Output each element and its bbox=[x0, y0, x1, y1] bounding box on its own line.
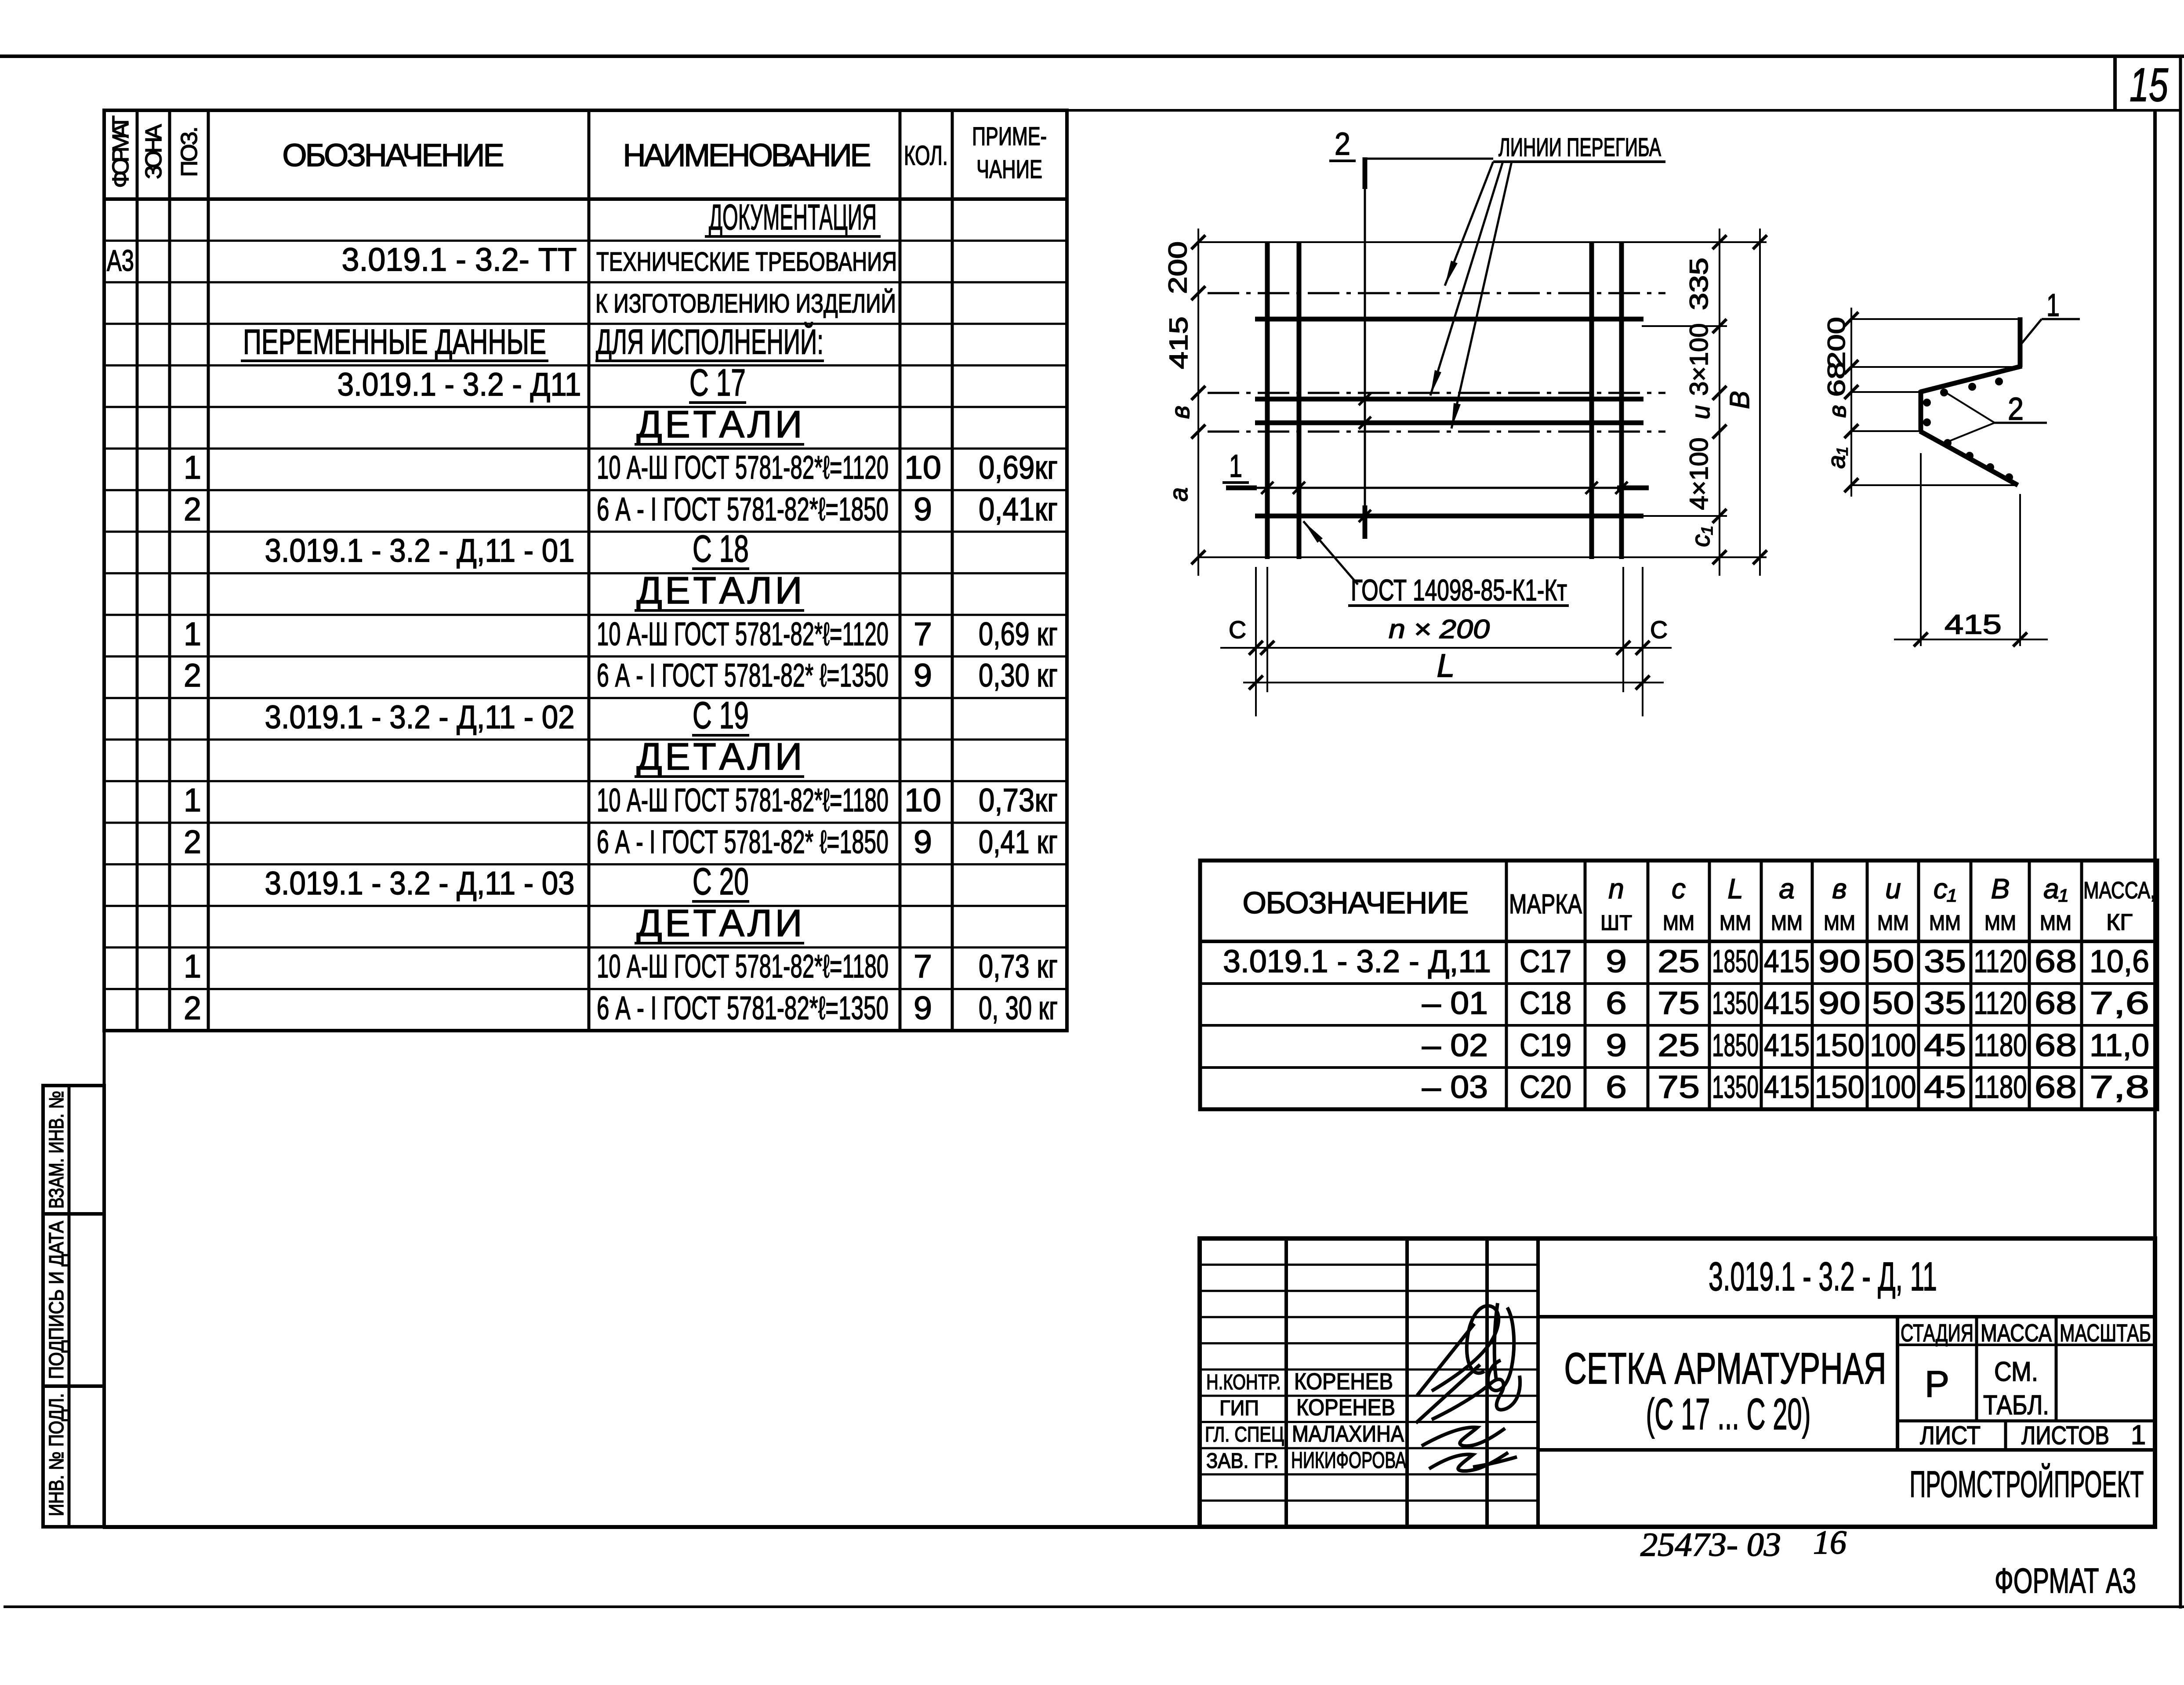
svg-text:0, 30 кг: 0, 30 кг bbox=[979, 990, 1058, 1026]
title name box divider bbox=[1538, 1448, 2155, 1452]
svg-text:в: в bbox=[1166, 406, 1195, 419]
detail 415 dimension bbox=[1920, 453, 1922, 646]
svg-text:1350: 1350 bbox=[1712, 986, 1759, 1021]
svg-text:с₁: с₁ bbox=[1934, 873, 1956, 904]
svg-text:100: 100 bbox=[1870, 1028, 1916, 1063]
svg-text:10,6: 10,6 bbox=[2090, 944, 2149, 979]
title block left grid columns bbox=[1284, 1238, 1288, 1527]
svg-text:415: 415 bbox=[1764, 986, 1810, 1021]
svg-text:МАССА,: МАССА, bbox=[2083, 877, 2155, 904]
svg-text:90: 90 bbox=[1818, 944, 1861, 979]
svg-text:9: 9 bbox=[914, 824, 932, 860]
svg-text:с₁: с₁ bbox=[1687, 526, 1715, 547]
section line 1 (horizontal) bbox=[1252, 487, 1617, 489]
svg-text:3.019.1 - 3.2- ТТ: 3.019.1 - 3.2- ТТ bbox=[342, 241, 577, 278]
svg-text:ЛИСТОВ: ЛИСТОВ bbox=[2021, 1421, 2109, 1450]
svg-text:(С 17 ... С 20): (С 17 ... С 20) bbox=[1646, 1390, 1811, 1439]
svg-text:В: В bbox=[1725, 391, 1755, 409]
svg-text:415: 415 bbox=[1165, 316, 1193, 369]
transverse bar x=2884 bbox=[1265, 242, 1270, 559]
title doc number divider bbox=[1538, 1315, 2155, 1318]
sheet number box divider bbox=[2113, 56, 2117, 111]
svg-text:68: 68 bbox=[2035, 944, 2077, 979]
svg-text:Д Е Т А Л И: Д Е Т А Л И bbox=[637, 570, 802, 612]
svg-text:С 20: С 20 bbox=[693, 861, 749, 903]
parameters table row lines bbox=[1200, 982, 2157, 985]
svg-text:3.019.1 - 3.2 - Д,11: 3.019.1 - 3.2 - Д,11 bbox=[1223, 944, 1491, 979]
svg-text:1: 1 bbox=[1229, 449, 1242, 484]
svg-text:КОЛ.: КОЛ. bbox=[904, 141, 948, 171]
svg-text:0,73кг: 0,73кг bbox=[979, 782, 1058, 818]
svg-text:ГОСТ 14098-85-К1-Кт: ГОСТ 14098-85-К1-Кт bbox=[1351, 574, 1567, 607]
svg-text:К ИЗГОТОВЛЕНИЮ ИЗДЕЛИЙ: К ИЗГОТОВЛЕНИЮ ИЗДЕЛИЙ bbox=[595, 289, 896, 318]
label ГОСТ 14098-85-К1-Кт bbox=[1303, 521, 1358, 585]
svg-text:и: и bbox=[1885, 873, 1901, 904]
svg-text:В: В bbox=[1991, 873, 2010, 904]
transverse bar x=2956 bbox=[1297, 242, 1302, 559]
svg-text:ГИП: ГИП bbox=[1219, 1397, 1259, 1420]
extension line mesh bottom bbox=[1198, 556, 1767, 558]
svg-text:0,41кг: 0,41кг bbox=[979, 491, 1058, 527]
spec table row lines bbox=[104, 240, 1067, 242]
svg-text:7,8: 7,8 bbox=[2090, 1070, 2149, 1105]
title block outer border bbox=[1200, 1238, 2155, 1527]
svg-text:1: 1 bbox=[184, 616, 201, 652]
svg-text:С: С bbox=[1650, 616, 1668, 643]
svg-text:150: 150 bbox=[1815, 1028, 1865, 1063]
svg-text:335: 335 bbox=[1685, 258, 1713, 310]
svg-text:ЛИСТ: ЛИСТ bbox=[1920, 1421, 1981, 1450]
fold line y=894 bbox=[1208, 392, 1665, 394]
svg-text:2: 2 bbox=[184, 990, 201, 1026]
svg-text:90: 90 bbox=[1818, 986, 1861, 1021]
svg-text:ДОКУМЕНТАЦИЯ: ДОКУМЕНТАЦИЯ bbox=[709, 197, 877, 237]
detail lower diagonal bbox=[1920, 431, 2018, 485]
svg-text:Р: Р bbox=[1925, 1363, 1949, 1405]
svg-text:415: 415 bbox=[1945, 610, 2002, 640]
svg-text:1: 1 bbox=[2131, 1420, 2146, 1450]
svg-text:ЗАВ. ГР.: ЗАВ. ГР. bbox=[1206, 1449, 1279, 1473]
svg-text:3×100: 3×100 bbox=[1685, 323, 1713, 396]
svg-text:L: L bbox=[1437, 647, 1455, 684]
svg-text:МАЛАХИНА: МАЛАХИНА bbox=[1292, 1421, 1404, 1447]
svg-text:415: 415 bbox=[1764, 1028, 1810, 1063]
svg-text:– 03: – 03 bbox=[1422, 1070, 1488, 1105]
top paper edge line bbox=[0, 54, 2184, 58]
svg-text:25473- 03: 25473- 03 bbox=[1640, 1526, 1781, 1563]
svg-text:1: 1 bbox=[2046, 288, 2060, 323]
svg-text:СЕТКА АРМАТУРНАЯ: СЕТКА АРМАТУРНАЯ bbox=[1564, 1344, 1887, 1393]
svg-text:– 01: – 01 bbox=[1422, 986, 1488, 1021]
svg-text:1350: 1350 bbox=[1712, 1070, 1759, 1105]
svg-text:– 02: – 02 bbox=[1422, 1028, 1488, 1063]
svg-text:ИНВ. № ПОДЛ.: ИНВ. № ПОДЛ. bbox=[45, 1393, 68, 1516]
detail extension lines bbox=[1851, 318, 2018, 320]
svg-text:НАИМЕНОВАНИЕ: НАИМЕНОВАНИЕ bbox=[623, 138, 871, 173]
svg-text:50: 50 bbox=[1872, 944, 1914, 979]
svg-text:25: 25 bbox=[1658, 944, 1700, 979]
svg-text:С17: С17 bbox=[1520, 944, 1571, 979]
detail bar dots bbox=[1995, 378, 2003, 385]
svg-text:6 А - I ГОСТ 5781-82* ℓ=1850: 6 А - I ГОСТ 5781-82* ℓ=1850 bbox=[597, 824, 889, 860]
svg-text:0,73 кг: 0,73 кг bbox=[979, 948, 1058, 984]
detail top bar bbox=[2018, 317, 2023, 367]
bottom extension lines bbox=[1255, 567, 1257, 716]
left frame line bbox=[103, 110, 106, 1529]
svg-text:ММ: ММ bbox=[1771, 911, 1803, 935]
svg-text:3.019.1 - 3.2 - Д,11 - 02: 3.019.1 - 3.2 - Д,11 - 02 bbox=[265, 699, 575, 735]
svg-text:ММ: ММ bbox=[1824, 911, 1855, 935]
svg-text:ПРИМЕ-: ПРИМЕ- bbox=[972, 122, 1047, 151]
section line 2 top jog bbox=[1365, 158, 1493, 160]
left stamp boxes bbox=[43, 1086, 104, 1527]
detail left bar bbox=[1919, 390, 1923, 432]
svg-text:и: и bbox=[1687, 405, 1715, 419]
svg-text:3.019.1 - 3.2 - Д, 11: 3.019.1 - 3.2 - Д, 11 bbox=[1709, 1254, 1937, 1299]
svg-text:3.019.1 - 3.2 - Д,11 - 03: 3.019.1 - 3.2 - Д,11 - 03 bbox=[265, 865, 575, 901]
svg-text:n: n bbox=[1608, 873, 1624, 904]
svg-text:ТАБЛ.: ТАБЛ. bbox=[1983, 1390, 2049, 1420]
svg-text:а₁: а₁ bbox=[1822, 447, 1850, 469]
signatures scribble bbox=[1417, 1306, 1498, 1395]
fold line y=667 bbox=[1208, 292, 1665, 294]
svg-text:3.019.1 - 3.2 - Д11: 3.019.1 - 3.2 - Д11 bbox=[337, 366, 581, 403]
svg-text:ТЕХНИЧЕСКИЕ ТРЕБОВАНИЯ: ТЕХНИЧЕСКИЕ ТРЕБОВАНИЯ bbox=[596, 247, 897, 276]
svg-text:1: 1 bbox=[184, 782, 201, 818]
svg-text:КОРЕНЕВ: КОРЕНЕВ bbox=[1296, 1395, 1395, 1420]
svg-text:4×100: 4×100 bbox=[1685, 438, 1713, 510]
svg-text:МАСШТАБ: МАСШТАБ bbox=[2060, 1319, 2151, 1347]
svg-text:6: 6 bbox=[1606, 986, 1627, 1021]
svg-text:МАРКА: МАРКА bbox=[1509, 889, 1582, 919]
svg-text:ФОРМАТ: ФОРМАТ bbox=[108, 116, 134, 188]
svg-text:2: 2 bbox=[184, 657, 201, 694]
svg-text:ММ: ММ bbox=[1877, 911, 1909, 935]
svg-text:68: 68 bbox=[1822, 362, 1850, 397]
svg-text:10: 10 bbox=[904, 782, 941, 818]
dimension line n x 200 bbox=[1220, 647, 1672, 649]
svg-text:2: 2 bbox=[1335, 127, 1350, 162]
svg-text:6 А - I ГОСТ 5781-82* ℓ=1350: 6 А - I ГОСТ 5781-82* ℓ=1350 bbox=[597, 657, 889, 694]
svg-text:9: 9 bbox=[914, 491, 932, 527]
extension line y=1174 right bbox=[1643, 515, 1727, 517]
svg-text:75: 75 bbox=[1658, 986, 1700, 1021]
svg-text:ШТ: ШТ bbox=[1600, 911, 1632, 935]
svg-text:МАССА: МАССА bbox=[1981, 1319, 2052, 1347]
svg-text:ОБОЗНАЧЕНИЕ: ОБОЗНАЧЕНИЕ bbox=[1243, 886, 1469, 920]
svg-text:Д Е Т А Л И: Д Е Т А Л И bbox=[637, 902, 802, 944]
svg-text:Д Е Т А Л И: Д Е Т А Л И bbox=[637, 403, 802, 446]
left dimension chain bbox=[1197, 229, 1199, 576]
longitudinal bar y=908 bbox=[1255, 397, 1643, 402]
svg-text:45: 45 bbox=[1924, 1028, 1966, 1063]
mini table column dividers bbox=[1975, 1317, 1978, 1421]
svg-text:ВЗАМ. ИНВ. №: ВЗАМ. ИНВ. № bbox=[45, 1091, 68, 1209]
svg-text:25: 25 bbox=[1658, 1028, 1700, 1063]
svg-text:6 А - I ГОСТ 5781-82*ℓ=1350: 6 А - I ГОСТ 5781-82*ℓ=1350 bbox=[597, 990, 889, 1026]
svg-text:0,41 кг: 0,41 кг bbox=[979, 824, 1058, 860]
svg-text:7: 7 bbox=[914, 948, 932, 984]
svg-text:35: 35 bbox=[1924, 944, 1966, 979]
svg-text:ДЛЯ ИСПОЛНЕНИЙ:: ДЛЯ ИСПОЛНЕНИЙ: bbox=[596, 322, 824, 361]
svg-text:А3: А3 bbox=[107, 244, 134, 277]
svg-text:15: 15 bbox=[2130, 58, 2169, 111]
svg-text:С18: С18 bbox=[1520, 986, 1571, 1021]
svg-text:10 А-Ш ГОСТ 5781-82*ℓ=1120: 10 А-Ш ГОСТ 5781-82*ℓ=1120 bbox=[597, 616, 889, 652]
svg-text:c: c bbox=[1672, 873, 1686, 904]
parameters table column lines bbox=[1505, 861, 1508, 1109]
svg-text:ЧАНИЕ: ЧАНИЕ bbox=[976, 155, 1042, 184]
svg-text:10 А-Ш ГОСТ 5781-82*ℓ=1120: 10 А-Ш ГОСТ 5781-82*ℓ=1120 bbox=[597, 449, 889, 486]
svg-text:ПРОМСТРОЙПРОЕКТ: ПРОМСТРОЙПРОЕКТ bbox=[1910, 1463, 2144, 1505]
longitudinal bar y=726 bbox=[1255, 317, 1643, 322]
svg-text:3.019.1 - 3.2 - Д,11 - 01: 3.019.1 - 3.2 - Д,11 - 01 bbox=[265, 532, 575, 569]
svg-text:а₁: а₁ bbox=[2043, 873, 2068, 904]
svg-text:10: 10 bbox=[904, 449, 941, 486]
transverse bar x=3622 bbox=[1589, 242, 1594, 559]
svg-text:СМ.: СМ. bbox=[1994, 1357, 2038, 1387]
svg-text:1850: 1850 bbox=[1712, 944, 1759, 979]
fold line y=982 bbox=[1208, 431, 1665, 433]
svg-text:Д Е Т А Л И: Д Е Т А Л И bbox=[637, 736, 802, 778]
svg-text:1: 1 bbox=[184, 948, 201, 984]
spec table column lines bbox=[136, 110, 139, 1031]
svg-text:150: 150 bbox=[1815, 1070, 1865, 1105]
svg-text:68: 68 bbox=[2035, 1028, 2077, 1063]
detail upper diagonal bbox=[1920, 366, 2022, 392]
section line 2 (vertical) bbox=[1364, 189, 1366, 505]
svg-text:50: 50 bbox=[1872, 986, 1914, 1021]
svg-text:1120: 1120 bbox=[1974, 986, 2027, 1021]
extension line mesh top bbox=[1198, 241, 1767, 243]
transverse bar x=3690 bbox=[1619, 242, 1624, 559]
svg-text:0,69кг: 0,69кг bbox=[979, 449, 1058, 486]
bottom paper edge line bbox=[4, 1605, 2184, 1608]
dimension line L bbox=[1243, 682, 1664, 683]
title mini table left edge bbox=[1896, 1317, 1899, 1450]
parameters table outer border bbox=[1200, 861, 2157, 1109]
svg-text:ММ: ММ bbox=[1720, 911, 1751, 935]
svg-text:С 19: С 19 bbox=[693, 694, 749, 737]
лист row bbox=[1897, 1420, 2155, 1423]
right dimension chain inner bbox=[1719, 229, 1720, 576]
longitudinal bar y=1174 bbox=[1255, 514, 1643, 519]
svg-text:10 А-Ш ГОСТ 5781-82*ℓ=1180: 10 А-Ш ГОСТ 5781-82*ℓ=1180 bbox=[597, 948, 889, 984]
spec table outer border bbox=[104, 110, 1067, 1031]
spec table header bottom line bbox=[104, 197, 1067, 201]
svg-text:С20: С20 bbox=[1520, 1070, 1571, 1105]
svg-text:ФОРМАТ А3: ФОРМАТ А3 bbox=[1995, 1561, 2136, 1600]
svg-text:6: 6 bbox=[1606, 1070, 1627, 1105]
svg-text:9: 9 bbox=[1606, 1028, 1627, 1063]
svg-text:0,69 кг: 0,69 кг bbox=[979, 616, 1058, 652]
svg-text:7,6: 7,6 bbox=[2090, 986, 2149, 1021]
svg-text:9: 9 bbox=[1606, 944, 1627, 979]
svg-text:1120: 1120 bbox=[1974, 944, 2027, 979]
svg-text:ММ: ММ bbox=[1929, 911, 1961, 935]
fold line leaders bbox=[1445, 162, 1493, 286]
svg-text:1180: 1180 bbox=[1974, 1028, 2027, 1063]
svg-text:0,30 кг: 0,30 кг bbox=[979, 657, 1058, 694]
svg-text:n × 200: n × 200 bbox=[1389, 614, 1490, 644]
parameters table header line bbox=[1200, 940, 2157, 943]
svg-text:ПЕРЕМЕННЫЕ ДАННЫЕ: ПЕРЕМЕННЫЕ ДАННЫЕ bbox=[243, 322, 546, 361]
svg-text:415: 415 bbox=[1764, 1070, 1810, 1105]
right paper edge line bbox=[2179, 56, 2182, 1609]
svg-text:СТАДИЯ: СТАДИЯ bbox=[1901, 1319, 1974, 1347]
svg-text:ОБОЗНАЧЕНИЕ: ОБОЗНАЧЕНИЕ bbox=[283, 138, 504, 173]
svg-text:С: С bbox=[1229, 616, 1246, 643]
right dimension chain outer (B) bbox=[1759, 229, 1761, 576]
svg-text:НИКИФОРОВА: НИКИФОРОВА bbox=[1291, 1448, 1406, 1473]
svg-text:L: L bbox=[1727, 873, 1743, 904]
svg-text:1850: 1850 bbox=[1712, 1028, 1759, 1063]
svg-text:КОРЕНЕВ: КОРЕНЕВ bbox=[1294, 1369, 1393, 1394]
svg-text:200: 200 bbox=[1822, 317, 1850, 369]
svg-text:С19: С19 bbox=[1520, 1028, 1571, 1063]
svg-text:10 А-Ш ГОСТ 5781-82*ℓ=1180: 10 А-Ш ГОСТ 5781-82*ℓ=1180 bbox=[597, 782, 889, 818]
svg-text:75: 75 bbox=[1658, 1070, 1700, 1105]
svg-text:1180: 1180 bbox=[1974, 1070, 2027, 1105]
svg-text:ГЛ. СПЕЦ: ГЛ. СПЕЦ bbox=[1205, 1423, 1284, 1446]
svg-text:Н.КОНТР.: Н.КОНТР. bbox=[1206, 1371, 1281, 1394]
mini table header row line bbox=[1897, 1344, 2155, 1346]
ticks on section line 2 bbox=[1359, 393, 1371, 405]
svg-text:ММ: ММ bbox=[1984, 911, 2016, 935]
svg-text:в: в bbox=[1823, 405, 1851, 418]
svg-text:45: 45 bbox=[1924, 1070, 1966, 1105]
svg-text:68: 68 bbox=[2035, 1070, 2077, 1105]
svg-text:в: в bbox=[1832, 873, 1847, 904]
svg-text:415: 415 bbox=[1764, 944, 1810, 979]
top frame line bbox=[103, 109, 2181, 112]
svg-text:6 А - I ГОСТ 5781-82*ℓ=1850: 6 А - I ГОСТ 5781-82*ℓ=1850 bbox=[597, 491, 889, 527]
svg-text:ЗОНА: ЗОНА bbox=[141, 124, 167, 179]
svg-text:ЛИНИИ ПЕРЕГИБА: ЛИНИИ ПЕРЕГИБА bbox=[1498, 133, 1661, 162]
svg-text:100: 100 bbox=[1870, 1070, 1916, 1105]
svg-text:16: 16 bbox=[1813, 1524, 1847, 1561]
svg-text:2: 2 bbox=[184, 491, 201, 527]
svg-text:200: 200 bbox=[1164, 241, 1192, 294]
svg-text:2: 2 bbox=[2008, 392, 2024, 427]
svg-text:7: 7 bbox=[914, 616, 932, 652]
bottom frame line bbox=[103, 1525, 2156, 1529]
detail dimension chain bbox=[1850, 308, 1852, 497]
title block left grid rows bbox=[1200, 1264, 1538, 1266]
svg-text:68: 68 bbox=[2035, 986, 2077, 1021]
longitudinal bar y=962 bbox=[1255, 421, 1643, 425]
svg-text:11,0: 11,0 bbox=[2090, 1028, 2149, 1063]
svg-text:35: 35 bbox=[1924, 986, 1966, 1021]
svg-text:1: 1 bbox=[184, 449, 201, 486]
svg-text:С 17: С 17 bbox=[689, 362, 746, 404]
right frame line bbox=[2153, 110, 2157, 1529]
svg-text:2: 2 bbox=[184, 824, 201, 860]
svg-text:ММ: ММ bbox=[1663, 911, 1694, 935]
svg-text:КГ: КГ bbox=[2106, 910, 2133, 935]
svg-text:ММ: ММ bbox=[2040, 911, 2072, 935]
svg-text:9: 9 bbox=[914, 990, 932, 1026]
svg-text:a: a bbox=[1779, 873, 1795, 904]
svg-text:а: а bbox=[1165, 487, 1193, 501]
svg-text:ПОДПИСЬ И ДАТА: ПОДПИСЬ И ДАТА bbox=[45, 1221, 68, 1379]
extension line y=742 bbox=[1642, 325, 1727, 327]
svg-text:ПОЗ.: ПОЗ. bbox=[177, 127, 202, 177]
svg-text:С 18: С 18 bbox=[693, 528, 749, 570]
svg-text:9: 9 bbox=[914, 657, 932, 694]
